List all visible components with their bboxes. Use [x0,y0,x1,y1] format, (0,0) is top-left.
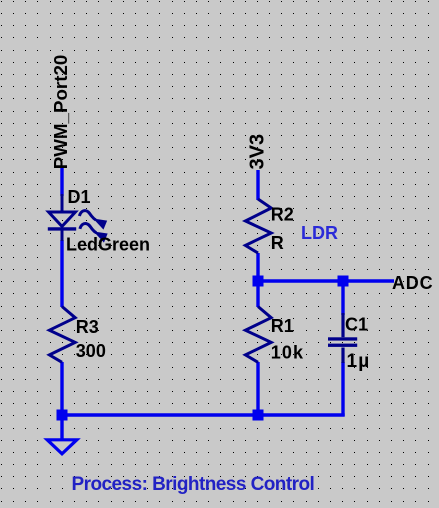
svg-text:ADC: ADC [392,273,433,293]
wire: 3V3 vertical to R2 [256,170,259,200]
wire: C1 top lead from ADC rail [341,281,344,315]
svg-text:C1: C1 [345,315,368,335]
svg-text:10k: 10k [271,342,304,362]
resistor R3 body [49,307,75,363]
svg-text:PWM_Port20: PWM_Port20 [50,55,71,170]
wire: ADC horizontal rail [258,279,394,282]
resistor R1 body [245,307,271,363]
svg-text:LDR: LDR [301,223,338,243]
svg-text:R: R [271,233,284,253]
svg-text:3V3: 3V3 [247,134,269,170]
node junction square (R1 bottom rail) [253,410,264,421]
node junction square (C1 top / ADC) [338,276,349,287]
wire: PWM net vertical top (to D1) [60,168,63,196]
wire: C1 bottom lead to bottom rail [341,362,344,416]
wire: R1 bottom to bottom rail [256,362,259,417]
LED emission arrow 1 [79,211,106,229]
wire: R3 bottom to bottom rail [60,362,63,417]
resistor R2 body [245,199,271,253]
svg-text:R1: R1 [271,316,294,336]
ground symbol [47,440,77,454]
wire: bottom ground rail [60,413,344,416]
svg-text:R3: R3 [76,317,99,337]
svg-text:LedGreen: LedGreen [66,235,150,255]
wire: R2 bottom to ADC node [256,253,259,307]
svg-text:D1: D1 [68,187,91,207]
wire: D1 cathode to R3 [60,240,63,307]
node junction square (R2/R1/ADC) [253,276,264,287]
svg-text:1µ: 1µ [347,351,371,372]
svg-text:300: 300 [76,341,106,361]
wire: node to ground [60,417,63,440]
svg-text:R2: R2 [271,204,294,224]
diode D1 (LED) symbol [48,194,76,241]
svg-text:Process: Brightness Control: Process: Brightness Control [72,474,315,495]
node junction square (ground rail left) [57,410,68,421]
LED emission arrow 2 [80,224,107,242]
capacitor C1 body [328,313,357,363]
